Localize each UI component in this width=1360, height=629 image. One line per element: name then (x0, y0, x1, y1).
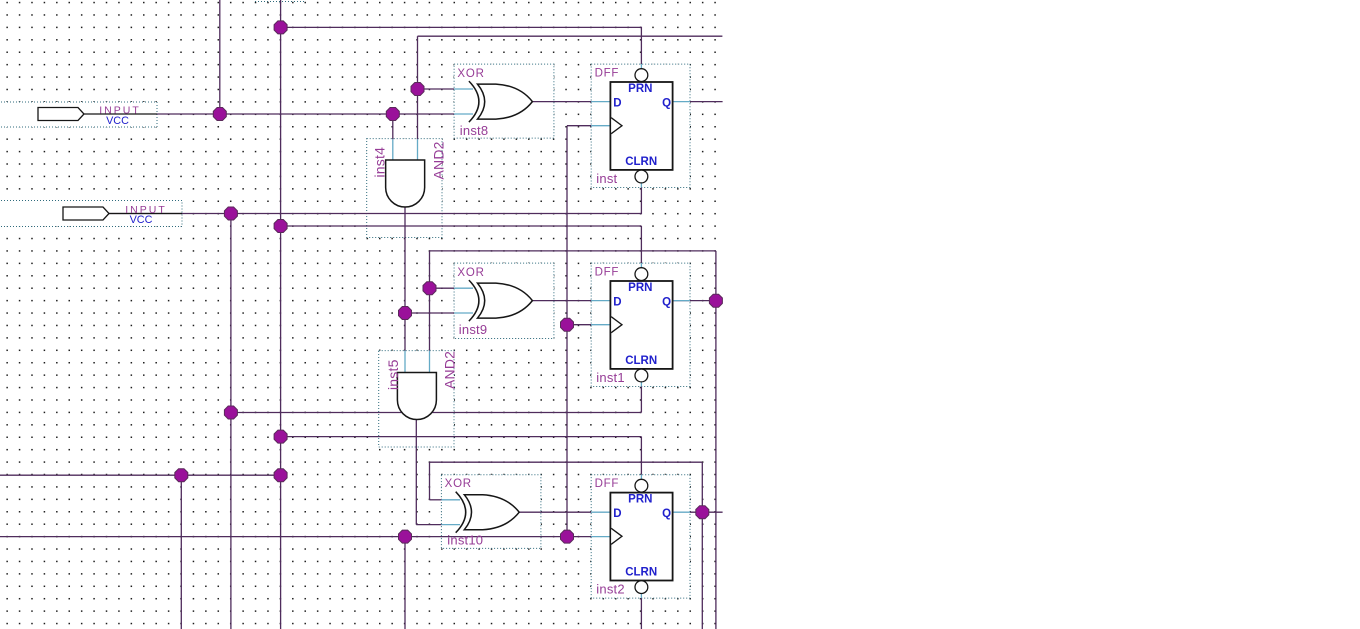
svg-text:inst9: inst9 (459, 322, 487, 337)
svg-text:AND2: AND2 (431, 141, 447, 179)
svg-text:Q: Q (662, 296, 671, 308)
svg-text:CLRN: CLRN (625, 355, 657, 367)
svg-text:DFF: DFF (595, 68, 619, 80)
svg-text:inst1: inst1 (596, 370, 624, 385)
svg-text:VCC: VCC (130, 214, 153, 226)
svg-text:Q: Q (662, 508, 671, 520)
svg-text:DFF: DFF (595, 267, 619, 279)
svg-text:PRN: PRN (628, 83, 652, 95)
svg-text:CLRN: CLRN (625, 156, 657, 168)
svg-text:D: D (613, 296, 621, 308)
svg-text:D: D (613, 97, 621, 109)
svg-text:AND2: AND2 (441, 351, 457, 389)
svg-text:CLRN: CLRN (625, 567, 657, 579)
svg-text:XOR: XOR (457, 68, 484, 80)
svg-text:VCC: VCC (106, 115, 129, 127)
svg-text:inst4: inst4 (372, 147, 388, 178)
svg-text:DFF: DFF (595, 478, 619, 490)
svg-text:inst5: inst5 (385, 359, 401, 390)
svg-text:D: D (613, 508, 621, 520)
svg-text:PRN: PRN (628, 282, 652, 294)
svg-text:inst: inst (596, 171, 617, 186)
svg-text:inst8: inst8 (460, 123, 488, 138)
svg-text:Q: Q (662, 97, 671, 109)
svg-text:XOR: XOR (445, 478, 472, 490)
svg-text:PRN: PRN (628, 494, 652, 506)
svg-text:inst2: inst2 (596, 582, 624, 597)
svg-text:inst10: inst10 (447, 532, 483, 547)
svg-text:XOR: XOR (457, 267, 484, 279)
